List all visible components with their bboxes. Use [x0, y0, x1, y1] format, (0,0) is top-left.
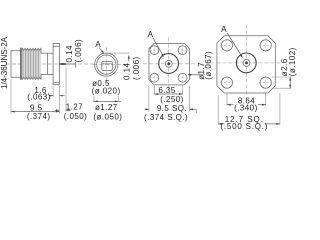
- svg-text:1/4-36UNS-2A: 1/4-36UNS-2A: [0, 36, 9, 89]
- svg-text:9.5 SQ.: 9.5 SQ.: [157, 104, 187, 113]
- svg-text:(ø.020): (ø.020): [92, 87, 121, 96]
- svg-text:(.250): (.250): [160, 95, 184, 104]
- svg-text:(.006): (.006): [74, 39, 83, 63]
- svg-text:0.14: 0.14: [65, 45, 74, 62]
- svg-text:1.27: 1.27: [66, 103, 83, 112]
- svg-text:(.006): (.006): [132, 56, 141, 80]
- svg-text:(ø.050): (ø.050): [93, 112, 122, 121]
- svg-text:ø1.27: ø1.27: [95, 103, 118, 112]
- svg-text:(.063): (.063): [27, 93, 51, 102]
- svg-text:9.5: 9.5: [30, 103, 43, 112]
- svg-text:6.35: 6.35: [158, 86, 175, 95]
- svg-text:A: A: [221, 25, 227, 34]
- svg-text:0.14: 0.14: [123, 63, 132, 80]
- svg-text:A: A: [95, 40, 101, 49]
- svg-text:A: A: [148, 30, 154, 39]
- svg-text:(.050): (.050): [64, 112, 88, 121]
- svg-text:(.374): (.374): [27, 112, 51, 121]
- svg-text:(ø.067): (ø.067): [204, 51, 213, 80]
- svg-text:(ø.102): (ø.102): [288, 47, 297, 76]
- svg-text:(.374 S.Q.): (.374 S.Q.): [144, 113, 188, 122]
- svg-text:(.340): (.340): [234, 104, 258, 113]
- svg-text:(.500 S.Q.): (.500 S.Q.): [220, 122, 268, 131]
